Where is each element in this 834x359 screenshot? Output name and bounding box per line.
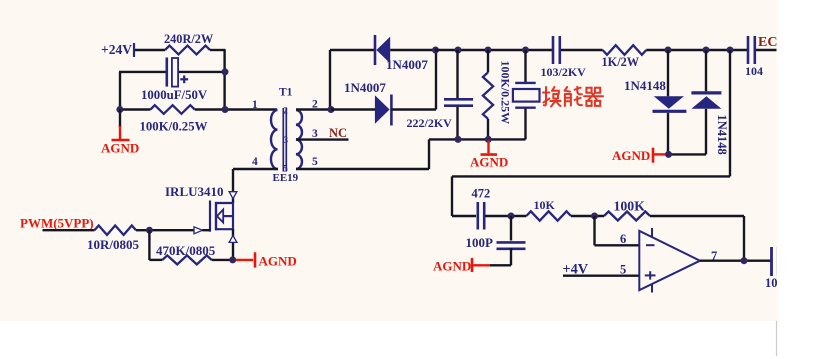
svg-text:222/2KV: 222/2KV [407, 116, 453, 130]
svg-text:3: 3 [312, 128, 318, 140]
svg-text:1N4007: 1N4007 [344, 80, 386, 95]
svg-text:10K: 10K [534, 198, 556, 212]
svg-text:EE19: EE19 [273, 172, 299, 184]
svg-text:100K/0.25W: 100K/0.25W [140, 120, 208, 134]
svg-text:IRLU3410: IRLU3410 [165, 184, 224, 199]
svg-text:3: 3 [284, 135, 289, 145]
svg-text:472: 472 [472, 187, 491, 201]
svg-text:2: 2 [283, 106, 288, 116]
svg-text:+24V: +24V [101, 42, 132, 57]
svg-text:1: 1 [252, 99, 258, 111]
svg-text:103/2KV: 103/2KV [541, 65, 587, 79]
svg-text:AGND: AGND [101, 141, 139, 156]
svg-text:10R/0805: 10R/0805 [87, 237, 140, 252]
svg-text:6: 6 [620, 232, 626, 246]
svg-text:240R/2W: 240R/2W [164, 32, 214, 46]
svg-text:T1: T1 [279, 87, 293, 99]
svg-text:1N4148: 1N4148 [715, 115, 729, 155]
svg-text:AGND: AGND [470, 155, 508, 170]
svg-text:AGND: AGND [612, 148, 650, 163]
svg-text:AGND: AGND [259, 254, 297, 269]
svg-text:470K/0805: 470K/0805 [156, 243, 216, 258]
svg-text:PWM(5VPP): PWM(5VPP) [20, 216, 94, 231]
svg-text:104: 104 [745, 64, 763, 78]
svg-text:100P: 100P [466, 235, 494, 250]
svg-text:1000uF/50V: 1000uF/50V [141, 88, 208, 102]
svg-text:AGND: AGND [433, 259, 471, 274]
svg-text:NC: NC [329, 126, 347, 140]
svg-text:5: 5 [283, 164, 288, 174]
svg-text:100K/0.25W: 100K/0.25W [499, 61, 513, 125]
svg-text:5: 5 [620, 263, 626, 277]
svg-text:4: 4 [252, 156, 258, 168]
svg-text:100K: 100K [614, 199, 646, 214]
svg-text:1K/2W: 1K/2W [602, 55, 640, 69]
svg-text:5: 5 [312, 156, 318, 168]
svg-text:1N4148: 1N4148 [624, 78, 666, 93]
svg-text:1N4007: 1N4007 [386, 57, 428, 72]
